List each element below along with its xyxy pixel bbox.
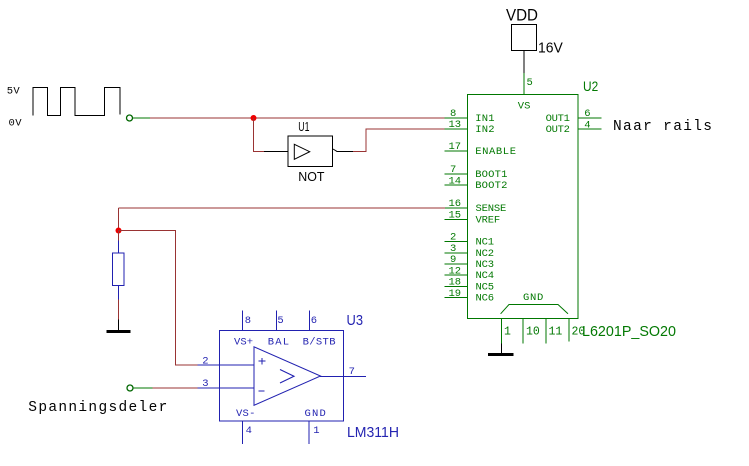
pin 3 NC2 <box>445 252 468 254</box>
gate U1 body <box>288 136 333 167</box>
pin 12 NC4 <box>445 274 468 276</box>
svg-text:NC1: NC1 <box>476 237 495 249</box>
svg-text:GND: GND <box>523 292 543 304</box>
svg-text:U3: U3 <box>347 313 364 329</box>
svg-text:NC6: NC6 <box>476 293 495 305</box>
svg-text:6: 6 <box>311 315 317 327</box>
pin 8 IN1 <box>445 117 468 119</box>
svg-text:5: 5 <box>277 315 283 327</box>
node input terminal <box>127 115 133 121</box>
pin 6 (U3 top) <box>309 310 311 330</box>
svg-text:14: 14 <box>449 175 462 187</box>
svg-text:2: 2 <box>202 356 208 368</box>
svg-text:0V: 0V <box>9 118 23 130</box>
junction resistor node <box>116 228 122 234</box>
gate U1 output inverter tick <box>333 149 337 151</box>
resistor lead bottom <box>118 286 120 300</box>
svg-text:16: 16 <box>449 198 462 210</box>
wire junction to U1 input <box>254 118 265 151</box>
svg-text:12: 12 <box>449 265 462 277</box>
wire SENSE net horizontal <box>119 207 446 209</box>
wire terminal to U3 pin 3 <box>153 387 198 389</box>
svg-text:L6201P_SO20: L6201P_SO20 <box>582 323 676 340</box>
svg-text:11: 11 <box>549 326 563 339</box>
svg-text:10: 10 <box>526 326 540 339</box>
svg-text:NC5: NC5 <box>476 282 495 294</box>
op-amp U3 plus mark <box>259 358 266 365</box>
pin 9 NC3 <box>445 263 468 265</box>
svg-text:VS-: VS- <box>236 408 255 420</box>
pin 7 BOOT1 <box>445 173 468 175</box>
pin 3 (U3 -) <box>198 387 255 389</box>
svg-text:3: 3 <box>202 378 208 390</box>
svg-text:8: 8 <box>245 315 251 327</box>
svg-text:BOOT2: BOOT2 <box>475 180 507 192</box>
input square-wave signal <box>33 87 120 115</box>
wire VDD to U2 pin 5 <box>523 50 525 73</box>
pin 6 OUT1 <box>578 117 602 119</box>
pin 1 (U3 bottom) <box>308 421 310 444</box>
svg-text:2: 2 <box>450 232 456 244</box>
op-amp U3 minus mark <box>259 390 265 392</box>
svg-text:SENSE: SENSE <box>476 203 507 215</box>
pin 4 OUT2 <box>578 128 602 130</box>
svg-text:6: 6 <box>584 108 590 120</box>
wire input terminal green segment <box>133 117 150 119</box>
svg-text:BOOT1: BOOT1 <box>475 169 507 181</box>
svg-text:19: 19 <box>449 288 462 300</box>
svg-text:NOT: NOT <box>298 169 324 184</box>
wire terminal green segment <box>133 387 152 389</box>
svg-text:5V: 5V <box>7 86 21 98</box>
svg-text:VREF: VREF <box>476 214 501 226</box>
pin 20 GND (bottom) <box>568 319 570 342</box>
svg-text:VDD: VDD <box>506 7 538 25</box>
svg-text:U2: U2 <box>583 78 598 94</box>
svg-text:VS+: VS+ <box>234 337 253 349</box>
pin 5 VS (top) <box>523 73 525 94</box>
ground (U2) <box>488 353 514 356</box>
gate U1 triangle <box>294 144 309 159</box>
pin 7 (U3 output) <box>320 375 366 377</box>
node Spanningsdeler terminal <box>127 385 133 391</box>
svg-text:5: 5 <box>527 77 533 89</box>
svg-text:4: 4 <box>246 425 252 437</box>
svg-text:BAL: BAL <box>268 337 289 349</box>
svg-text:1: 1 <box>504 326 511 339</box>
svg-text:9: 9 <box>450 254 456 266</box>
svg-text:IN2: IN2 <box>475 124 494 136</box>
svg-text:OUT2: OUT2 <box>546 124 570 136</box>
pin 1 GND (bottom) <box>501 319 503 344</box>
power VDD symbol <box>512 24 537 50</box>
pin 11 GND (bottom) <box>545 319 547 344</box>
svg-text:Spanningsdeler: Spanningsdeler <box>28 400 167 416</box>
svg-text:7: 7 <box>450 164 456 176</box>
svg-text:20: 20 <box>572 326 586 339</box>
svg-text:18: 18 <box>449 277 462 289</box>
op-amp U3 comparator mark <box>280 370 294 384</box>
pin 2 NC1 <box>445 241 468 243</box>
pin 18 NC5 <box>445 286 468 288</box>
pin 5 (U3 top) <box>276 310 278 330</box>
pin 8 (U3 top) <box>241 310 243 330</box>
pin 13 IN2 <box>445 128 468 130</box>
pin 14 BOOT2 <box>445 184 468 186</box>
svg-text:15: 15 <box>449 210 462 222</box>
IC U2 body <box>468 95 579 319</box>
wire SENSE net vertical <box>118 208 120 231</box>
svg-text:16V: 16V <box>538 40 563 56</box>
svg-text:4: 4 <box>584 119 590 131</box>
svg-text:GND: GND <box>305 408 326 420</box>
svg-text:NC3: NC3 <box>476 259 495 271</box>
svg-text:3: 3 <box>450 243 456 255</box>
wire junction to resistor <box>118 231 120 241</box>
pin 2 (U3 +) <box>198 364 255 366</box>
svg-text:VS: VS <box>518 101 531 113</box>
resistor body <box>113 253 124 285</box>
junction input net <box>251 115 257 121</box>
wire resistor to ground <box>118 300 120 320</box>
svg-text:1: 1 <box>313 425 319 437</box>
pin 4 (U3 bottom) <box>241 421 243 444</box>
op-amp U3 triangle <box>254 347 321 406</box>
wire U2 pin 1 to ground <box>501 343 503 356</box>
GND group bracket <box>501 305 568 314</box>
svg-text:17: 17 <box>449 141 462 153</box>
wire ground stem black <box>118 320 120 333</box>
pin 10 GND (bottom) <box>522 319 524 344</box>
wire input net to U2 pin 8 IN1 <box>150 117 445 119</box>
wire junction to U3 pin 2 <box>119 231 198 366</box>
pin 16 SENSE <box>445 207 468 209</box>
svg-text:7: 7 <box>349 366 355 378</box>
pin 19 NC6 <box>445 297 468 299</box>
ground (resistor) <box>106 330 130 333</box>
svg-text:Naar rails: Naar rails <box>613 119 712 135</box>
resistor (spanningsdeler) lead top <box>118 241 120 254</box>
wire U1 input black segment <box>264 150 288 152</box>
pin 17 ENABLE <box>445 150 468 152</box>
svg-text:U1: U1 <box>298 119 309 134</box>
wire U1 output to U2 pin 13 IN2 <box>353 129 445 151</box>
svg-text:NC4: NC4 <box>476 270 495 282</box>
svg-text:LM311H: LM311H <box>347 424 399 441</box>
wire U1 output black segment <box>337 150 354 152</box>
svg-text:ENABLE: ENABLE <box>475 146 516 158</box>
svg-text:B/STB: B/STB <box>303 337 336 349</box>
op-amp U3 body <box>220 331 344 421</box>
svg-text:13: 13 <box>449 119 462 131</box>
pin 15 VREF <box>445 218 468 220</box>
